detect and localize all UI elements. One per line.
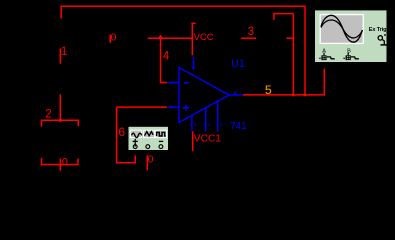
svg-text:5: 5 — [265, 83, 272, 97]
svg-text:741: 741 — [230, 121, 246, 132]
svg-text:2: 2 — [45, 108, 51, 120]
svg-text:0: 0 — [62, 157, 68, 169]
svg-text:4: 4 — [207, 122, 210, 128]
svg-text:A: A — [322, 48, 326, 54]
svg-text:1: 1 — [194, 122, 197, 128]
svg-text:1: 1 — [61, 44, 68, 58]
svg-text:4: 4 — [163, 51, 170, 63]
svg-text:0: 0 — [111, 31, 117, 43]
svg-text:VCC1: VCC1 — [194, 133, 222, 144]
svg-text:Ex Trig: Ex Trig — [369, 27, 387, 33]
svg-text:U1: U1 — [231, 58, 245, 70]
svg-text:0: 0 — [148, 153, 154, 165]
svg-text:VCC: VCC — [194, 32, 214, 43]
svg-text:6: 6 — [118, 125, 125, 139]
svg-text:B: B — [347, 48, 351, 54]
svg-text:3: 3 — [248, 26, 254, 38]
svg-text:5: 5 — [220, 122, 223, 128]
